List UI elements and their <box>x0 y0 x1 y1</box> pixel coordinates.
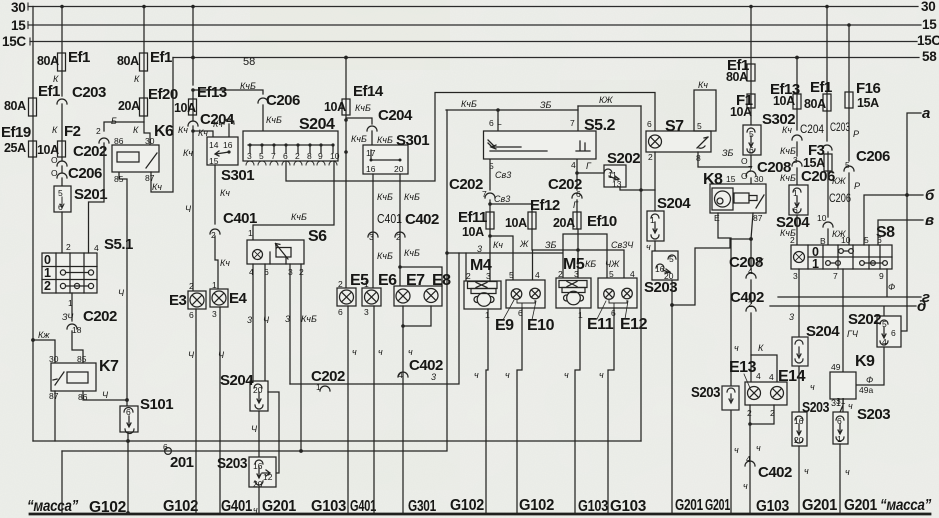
svg-text:30: 30 <box>921 0 935 14</box>
fuse F2 10A <box>37 123 81 157</box>
svg-text:Кж: Кж <box>38 330 50 340</box>
svg-text:в: в <box>925 212 934 229</box>
svg-text:К: К <box>52 125 58 135</box>
svg-text:“масса”: “масса” <box>880 497 931 514</box>
svg-text:К: К <box>758 343 764 353</box>
relay K8 (wiper relay) <box>703 171 766 223</box>
svg-text:3: 3 <box>364 307 369 317</box>
svg-text:Кч: Кч <box>698 80 708 90</box>
svg-text:85: 85 <box>77 354 87 364</box>
svg-text:E9: E9 <box>495 317 514 334</box>
svg-text:31: 31 <box>836 396 846 406</box>
connector C206 pin10 (right) <box>817 171 851 246</box>
svg-text:E10: E10 <box>527 317 555 334</box>
wire S7-2 down through connectors <box>648 152 655 211</box>
svg-text:15: 15 <box>209 156 219 166</box>
switch S302 <box>743 108 795 155</box>
fuse Ef1 80A (third) <box>117 49 172 71</box>
svg-text:14: 14 <box>209 140 219 150</box>
svg-text:1: 1 <box>248 228 253 238</box>
svg-text:S203: S203 <box>857 406 890 423</box>
svg-text:S6: S6 <box>308 228 327 245</box>
wire with K label (K6 col) <box>134 71 144 98</box>
wire S203 to ground G201 (far right) <box>840 444 850 513</box>
connector S203 (pin16/20) <box>792 398 841 446</box>
svg-text:ЧЖ: ЧЖ <box>605 259 620 269</box>
svg-text:80A: 80A <box>4 99 26 113</box>
svg-text:E11: E11 <box>587 316 614 333</box>
connector S202 (small) <box>604 150 640 189</box>
svg-text:3: 3 <box>574 269 579 279</box>
fuse F16 15A <box>845 80 881 110</box>
svg-text:ч: ч <box>564 370 569 380</box>
wire horizontal C202 line (z net) <box>290 253 459 392</box>
svg-text:ч: ч <box>253 505 258 515</box>
connector C208 pin7 <box>741 155 791 184</box>
svg-text:1: 1 <box>812 257 819 271</box>
svg-text:3: 3 <box>285 314 290 324</box>
connector S204 (small, left) <box>220 372 268 411</box>
wire S6 pin2 down to node 201 line <box>299 264 317 453</box>
svg-text:6: 6 <box>576 189 581 199</box>
svg-text:КчБ: КчБ <box>377 192 393 202</box>
svg-text:10A: 10A <box>505 216 527 230</box>
wire with K label <box>53 71 62 96</box>
svg-text:ЗБ: ЗБ <box>540 100 552 110</box>
wire between fuses <box>32 116 34 141</box>
wire S203 pin 20 to ground G201 and link to K8 <box>670 239 751 513</box>
svg-text:ч: ч <box>599 370 604 380</box>
svg-text:ЗБ: ЗБ <box>545 240 557 250</box>
svg-text:ч: ч <box>756 443 761 453</box>
svg-text:2: 2 <box>558 269 563 279</box>
wire Ef11 branch to Ef12 <box>488 202 532 212</box>
motor M5 (washer pump) <box>556 256 591 320</box>
fuse Ef14 10A <box>324 83 384 115</box>
svg-text:2: 2 <box>396 232 401 242</box>
svg-text:ч: ч <box>505 370 510 380</box>
wire Ef14 column from bus 58 <box>345 58 347 100</box>
switch S5.1 <box>42 236 133 293</box>
svg-text:Кч: Кч <box>493 240 503 250</box>
svg-text:G201: G201 <box>262 498 297 515</box>
svg-text:F16: F16 <box>856 80 881 97</box>
wire K7-86 to S101 junction <box>83 390 129 402</box>
svg-text:Ef13: Ef13 <box>197 84 227 101</box>
svg-text:G103: G103 <box>756 498 790 515</box>
svg-text:58: 58 <box>922 49 937 64</box>
wire g line from S8 pin9 <box>778 269 930 306</box>
wire Ef11 to M4 pin3 and E9 <box>477 229 529 281</box>
wire S8 pin7 to relay K9 <box>843 269 859 372</box>
svg-text:1: 1 <box>68 298 73 308</box>
svg-text:1: 1 <box>316 382 321 392</box>
svg-text:4: 4 <box>882 337 887 347</box>
svg-text:КчБ: КчБ <box>377 251 393 261</box>
fuse F1 10A <box>730 81 755 119</box>
relay K9 <box>830 353 875 399</box>
svg-text:S5.2: S5.2 <box>584 117 616 134</box>
svg-text:3: 3 <box>247 151 252 161</box>
svg-text:G102: G102 <box>519 497 554 514</box>
svg-text:5: 5 <box>609 269 614 279</box>
svg-text:C401: C401 <box>223 210 257 227</box>
wire branch to C206 and S204 <box>191 81 300 131</box>
svg-text:S101: S101 <box>140 396 173 413</box>
wire M5 pin1 to ground G103 <box>564 308 580 513</box>
svg-text:КчБ: КчБ <box>240 81 256 91</box>
svg-text:C402: C402 <box>409 357 443 374</box>
svg-text:20A: 20A <box>118 99 140 113</box>
svg-text:E4: E4 <box>229 290 248 307</box>
svg-text:G103: G103 <box>578 498 609 515</box>
svg-text:Кч: Кч <box>782 125 792 135</box>
svg-text:1: 1 <box>650 215 655 225</box>
svg-text:“масса”: “масса” <box>27 498 78 515</box>
svg-text:КчБ: КчБ <box>351 134 367 144</box>
svg-text:ч: ч <box>408 347 413 357</box>
svg-text:Р: Р <box>854 181 860 191</box>
svg-text:25A: 25A <box>4 141 26 155</box>
svg-text:15: 15 <box>922 17 937 32</box>
wire vertical KZh down to ground link <box>639 106 643 441</box>
svg-text:C402: C402 <box>758 464 792 481</box>
wire S6 pin4 down to connector S204 <box>247 264 253 381</box>
svg-text:Ф: Ф <box>888 282 895 292</box>
wire Ef13 to lamp E3 <box>183 126 213 291</box>
svg-text:2: 2 <box>748 299 753 309</box>
svg-text:3: 3 <box>247 315 252 325</box>
wire K8-87 via C208-4 / C402-2 down <box>729 213 764 382</box>
svg-text:Ef19: Ef19 <box>1 124 31 141</box>
svg-text:1: 1 <box>364 279 369 289</box>
svg-text:Ч: Ч <box>263 315 270 325</box>
wire connector S204 right pin down to S203-12 <box>268 392 279 473</box>
wire Ef12/Ef10 line to M5 and E11 E12 <box>532 229 634 280</box>
svg-text:б: б <box>925 187 935 204</box>
svg-text:G401: G401 <box>350 498 376 515</box>
wire a line <box>901 105 930 331</box>
svg-text:а: а <box>922 105 930 122</box>
wire S301-15 to C401 to lamp E4 <box>210 165 257 289</box>
wire E3 to ground G102 <box>188 309 196 513</box>
wire bus 15C <box>2 33 939 49</box>
svg-text:2: 2 <box>648 152 653 162</box>
svg-text:О: О <box>741 171 748 181</box>
fuse Ef1 80A (second) <box>37 49 90 71</box>
fuse Ef1 80A (fourth) <box>804 79 832 111</box>
wire S204 to selector pin 2 <box>780 215 797 245</box>
svg-text:1: 1 <box>44 266 51 280</box>
svg-text:2: 2 <box>189 281 194 291</box>
svg-text:Ч: Ч <box>218 350 225 360</box>
wire branch to E14 <box>751 355 777 382</box>
svg-text:ч: ч <box>810 382 815 392</box>
lamps E7 E8 block <box>394 272 451 306</box>
svg-text:Ф: Ф <box>866 375 873 385</box>
svg-text:4: 4 <box>398 370 403 380</box>
wire S5.1 pin1 to connector C202 pin18 <box>62 293 117 335</box>
fuse Ef13 10A (right) <box>770 81 801 109</box>
svg-text:2: 2 <box>295 151 300 161</box>
svg-text:7: 7 <box>482 189 487 199</box>
svg-text:6: 6 <box>749 145 754 155</box>
svg-text:18: 18 <box>72 325 82 335</box>
svg-text:6: 6 <box>647 119 652 129</box>
connector S204 (third) <box>647 195 691 241</box>
wire E11/E12 pin6 to ground G103 <box>599 308 614 513</box>
svg-text:ГЧ: ГЧ <box>847 329 859 339</box>
wire bus 15 <box>11 17 937 33</box>
connector C203 (right) <box>822 109 850 154</box>
svg-text:G201: G201 <box>705 497 730 514</box>
svg-text:10A: 10A <box>324 100 346 114</box>
svg-text:Ч: Ч <box>102 390 109 400</box>
svg-text:G102: G102 <box>163 498 198 515</box>
wire E5 to ground G103 <box>348 306 357 513</box>
svg-text:1: 1 <box>212 280 217 290</box>
wire bus 58 <box>173 49 937 68</box>
switch S201 <box>54 178 107 212</box>
svg-text:10A: 10A <box>773 94 795 108</box>
svg-text:Е: Е <box>714 213 720 223</box>
connector S101 <box>120 396 173 434</box>
svg-text:C203: C203 <box>830 120 850 134</box>
svg-text:Ef14: Ef14 <box>353 83 384 100</box>
svg-text:Р: Р <box>853 129 859 139</box>
svg-text:K8: K8 <box>703 171 723 188</box>
wire KZh line from S5.2 pin7 <box>578 95 641 106</box>
svg-text:S202: S202 <box>848 311 881 328</box>
switch S6 (rheostat) <box>247 228 327 277</box>
svg-text:G201: G201 <box>802 497 838 514</box>
wire branch B to C202-2 and S5.1 pin 4 <box>89 122 145 253</box>
svg-text:10A: 10A <box>730 105 752 119</box>
lamp E6 <box>362 272 397 317</box>
svg-text:4: 4 <box>630 269 635 279</box>
svg-text:7: 7 <box>748 164 753 174</box>
wire S5.2 pin5 via C202-7 to fuses <box>449 160 511 212</box>
svg-text:G103: G103 <box>311 498 347 515</box>
connector S203 (pin6/1) <box>833 406 890 444</box>
wire Ef20 to K6-30 <box>111 116 150 145</box>
svg-text:12: 12 <box>263 472 273 482</box>
svg-text:3: 3 <box>789 312 794 322</box>
svg-text:49a: 49a <box>859 385 873 395</box>
svg-text:Кч: Кч <box>220 188 230 198</box>
svg-text:5: 5 <box>259 151 264 161</box>
svg-text:5: 5 <box>509 270 514 280</box>
wire S202-13 down to ground link <box>620 187 655 190</box>
svg-text:ЗЧ: ЗЧ <box>62 312 74 322</box>
connector C206 pin3 (right) <box>780 155 835 185</box>
svg-text:15C: 15C <box>917 33 939 48</box>
svg-text:E12: E12 <box>620 316 648 333</box>
svg-text:S203: S203 <box>691 384 720 401</box>
svg-text:C204: C204 <box>378 107 413 124</box>
svg-text:ЗБ: ЗБ <box>722 148 734 158</box>
svg-text:C402: C402 <box>405 211 439 228</box>
svg-text:2: 2 <box>96 126 101 136</box>
svg-text:C204: C204 <box>800 122 824 136</box>
svg-text:О: О <box>51 155 58 165</box>
svg-text:15C: 15C <box>2 34 26 49</box>
wire S101 to ground G102 <box>126 432 130 515</box>
svg-text:ч: ч <box>848 401 853 411</box>
svg-text:30: 30 <box>754 174 764 184</box>
svg-text:S5.1: S5.1 <box>104 236 133 253</box>
svg-text:5: 5 <box>669 254 674 264</box>
svg-text:80A: 80A <box>117 54 139 68</box>
wire S204 to S203 (second) <box>646 241 655 252</box>
lamps E11 E12 block <box>587 269 648 333</box>
svg-text:2: 2 <box>44 279 51 293</box>
svg-text:6: 6 <box>163 442 168 452</box>
wire S7-8 to S302/C208 junction <box>698 148 751 167</box>
svg-text:О: О <box>51 168 58 178</box>
svg-text:S7: S7 <box>665 118 684 135</box>
svg-text:Ef12: Ef12 <box>530 197 560 214</box>
svg-text:4: 4 <box>94 243 99 253</box>
svg-text:16: 16 <box>253 461 263 471</box>
wire K9-31 to connector S203 <box>836 396 853 412</box>
svg-text:6: 6 <box>338 307 343 317</box>
svg-text:КЖ: КЖ <box>599 95 613 105</box>
svg-text:6: 6 <box>189 310 194 320</box>
svg-text:87: 87 <box>753 213 763 223</box>
svg-text:7: 7 <box>570 118 575 128</box>
svg-text:15: 15 <box>11 18 26 33</box>
svg-text:Кч: Кч <box>183 148 193 158</box>
svg-text:д: д <box>917 298 926 315</box>
svg-text:S203: S203 <box>217 455 247 472</box>
svg-text:S204: S204 <box>220 372 254 389</box>
svg-text:10: 10 <box>841 235 851 245</box>
svg-text:2: 2 <box>338 279 343 289</box>
svg-text:9: 9 <box>879 271 884 281</box>
svg-text:10: 10 <box>330 151 340 161</box>
svg-text:7: 7 <box>833 271 838 281</box>
wire b line to S8 pin5 <box>864 187 935 245</box>
svg-text:4: 4 <box>746 454 751 464</box>
wire branch to relay K7 pin 30 <box>33 340 55 363</box>
svg-text:КЖ: КЖ <box>832 176 846 186</box>
svg-text:КчБ: КчБ <box>404 248 420 258</box>
connector C204 <box>178 111 235 138</box>
connector S204 (right) <box>776 185 810 231</box>
svg-text:10A: 10A <box>462 225 484 239</box>
svg-text:20A: 20A <box>553 216 575 230</box>
svg-text:G301: G301 <box>408 498 437 515</box>
svg-text:201: 201 <box>170 454 194 471</box>
svg-text:80A: 80A <box>804 97 826 111</box>
svg-text:10: 10 <box>817 213 827 223</box>
svg-text:1: 1 <box>837 434 842 444</box>
svg-text:87: 87 <box>49 391 59 401</box>
svg-text:Ef10: Ef10 <box>587 213 617 230</box>
svg-text:Ж: Ж <box>519 239 529 249</box>
svg-text:3: 3 <box>369 232 374 242</box>
motor M4 (wiper) <box>464 257 501 320</box>
wire Ef13 right column from bus 58 <box>796 58 798 95</box>
svg-text:G102: G102 <box>89 499 126 516</box>
connector stub C204 above S301 pin16 <box>213 119 234 137</box>
svg-text:C202: C202 <box>73 143 107 160</box>
svg-text:4: 4 <box>756 371 761 381</box>
wire C202-18 to K7 pin 85 <box>72 331 83 363</box>
wire S204 pin10 to switch S6 pin1 <box>248 161 334 240</box>
svg-text:S204: S204 <box>299 116 335 133</box>
svg-text:8: 8 <box>307 151 312 161</box>
svg-text:ч: ч <box>352 347 357 357</box>
connector S204 (on S8 pin3 wire) <box>792 323 840 392</box>
svg-text:Кч: Кч <box>213 119 223 129</box>
switch S301 (second) <box>363 132 429 174</box>
svg-text:85: 85 <box>114 174 124 184</box>
svg-text:20: 20 <box>253 385 263 395</box>
wire S301-16 via C401 to lamp E6 <box>368 174 402 288</box>
svg-text:G102: G102 <box>450 497 484 514</box>
svg-text:Ef11: Ef11 <box>458 209 487 226</box>
svg-text:15: 15 <box>726 174 736 184</box>
svg-text:ч: ч <box>804 466 809 476</box>
svg-text:20: 20 <box>794 435 804 445</box>
svg-text:C206: C206 <box>829 191 851 205</box>
wire feed line KchB/ZB to S5.2 <box>446 99 578 131</box>
wire z-net horizontal to M4/M5 pin2 <box>445 110 607 281</box>
svg-text:Кч: Кч <box>220 258 230 268</box>
svg-text:K9: K9 <box>855 353 875 370</box>
fuse Ef20 20A <box>118 86 178 116</box>
svg-text:ч: ч <box>646 242 651 252</box>
wire S201 to S5.1 <box>62 212 71 253</box>
svg-text:S301: S301 <box>396 132 429 149</box>
svg-text:S203: S203 <box>802 399 829 416</box>
wire E7/E8 join to C402 and ground G301 <box>398 306 443 513</box>
svg-text:КчБ: КчБ <box>301 314 317 324</box>
wire horizontal link to ground (y441) <box>33 440 641 442</box>
svg-text:E14: E14 <box>778 368 806 385</box>
svg-text:49: 49 <box>831 362 841 372</box>
connector S203 (second) <box>644 251 678 296</box>
connector C206 pin5 (right) <box>841 108 890 245</box>
svg-text:S204: S204 <box>657 195 691 212</box>
svg-text:C206: C206 <box>68 165 102 182</box>
svg-text:15A: 15A <box>857 96 879 110</box>
svg-text:КчБ: КчБ <box>355 103 371 113</box>
svg-text:S202: S202 <box>607 150 640 167</box>
svg-text:7: 7 <box>271 151 276 161</box>
svg-text:C202: C202 <box>83 308 117 325</box>
lamp E4 <box>210 280 248 319</box>
svg-text:58: 58 <box>243 56 255 68</box>
connector C203 <box>57 84 106 141</box>
svg-text:G201: G201 <box>675 497 704 514</box>
svg-text:G401: G401 <box>221 498 253 515</box>
svg-text:0: 0 <box>44 253 51 267</box>
fuse Ef11 10A <box>458 209 494 239</box>
svg-text:E8: E8 <box>432 272 451 289</box>
wire S6 pin6 down to connector S204 <box>263 264 270 381</box>
wire S5.2 pin4 via C202-6 to fuse Ef10 <box>548 160 604 212</box>
svg-text:G103: G103 <box>610 498 647 515</box>
wire S6 pin3 down to C202 line <box>285 264 290 384</box>
svg-text:5: 5 <box>845 160 850 170</box>
fuse Ef10 20A <box>553 212 617 230</box>
svg-text:Ч: Ч <box>188 350 195 360</box>
svg-text:ч: ч <box>734 445 739 455</box>
wire Ef13 column from bus 30 <box>191 5 195 85</box>
